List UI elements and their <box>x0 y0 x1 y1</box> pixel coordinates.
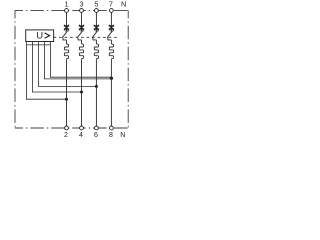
thermal disconnect meander pole 3 <box>94 40 98 59</box>
spark gap F4 <box>109 25 114 31</box>
wire pole 4 upper <box>110 12 112 26</box>
terminal 6 <box>95 126 99 130</box>
terminal 4 <box>80 126 84 130</box>
enclosure dash-dot border <box>15 10 128 128</box>
monitor wire to pole 4 <box>44 45 111 79</box>
spark gap F3 <box>94 25 99 31</box>
junction node pole 2 <box>80 91 83 94</box>
svg-text:4: 4 <box>79 132 83 139</box>
disconnect switch pole 4 <box>107 29 113 40</box>
svg-text:8: 8 <box>109 132 113 139</box>
monitor wire to pole 3 <box>38 45 96 87</box>
junction node pole 1 <box>65 98 68 101</box>
junction node pole 3 <box>95 85 98 88</box>
wire pole 3 upper <box>95 12 97 26</box>
disconnect switch pole 1 <box>62 29 68 40</box>
monitor bus bar below box <box>26 42 50 45</box>
wire pole 1 lower <box>66 59 68 126</box>
svg-text:7: 7 <box>109 0 113 9</box>
svg-text:U: U <box>36 31 43 42</box>
disconnect switch pole 3 <box>92 29 98 40</box>
terminal 1 <box>65 9 69 13</box>
spark gap F1 <box>64 25 69 31</box>
svg-text:2: 2 <box>64 132 68 139</box>
thermal disconnect meander pole 1 <box>64 40 68 59</box>
monitor wire 5 to pole 4 <box>50 45 111 77</box>
monitor wire to pole 1 <box>26 45 66 99</box>
disconnect switch pole 2 <box>77 29 83 40</box>
svg-text:1: 1 <box>64 0 68 9</box>
terminal 2 <box>65 126 69 130</box>
svg-text:N: N <box>121 0 126 9</box>
thermal disconnect meander pole 4 <box>109 40 113 59</box>
wire pole 1 upper <box>66 12 68 26</box>
svg-text:5: 5 <box>94 0 98 9</box>
wire pole 4 lower <box>110 59 112 126</box>
mechanical linkage dashed line <box>54 36 117 38</box>
thermal disconnect meander pole 2 <box>79 40 83 59</box>
terminal 5 <box>95 9 99 13</box>
junction node pole 4 <box>110 77 113 80</box>
terminal 7 <box>110 9 114 13</box>
svg-text:3: 3 <box>79 0 83 9</box>
svg-text:6: 6 <box>94 132 98 139</box>
spark gap F2 <box>79 25 84 31</box>
wire pole 3 lower <box>95 59 97 126</box>
monitor wire to pole 2 <box>32 45 81 92</box>
terminal 3 <box>80 9 84 13</box>
monitoring module U> box U1 <box>26 30 54 42</box>
wire pole 2 upper <box>81 12 83 26</box>
terminal 8 <box>110 126 114 130</box>
wire pole 2 lower <box>81 59 83 126</box>
svg-text:N: N <box>120 132 125 139</box>
